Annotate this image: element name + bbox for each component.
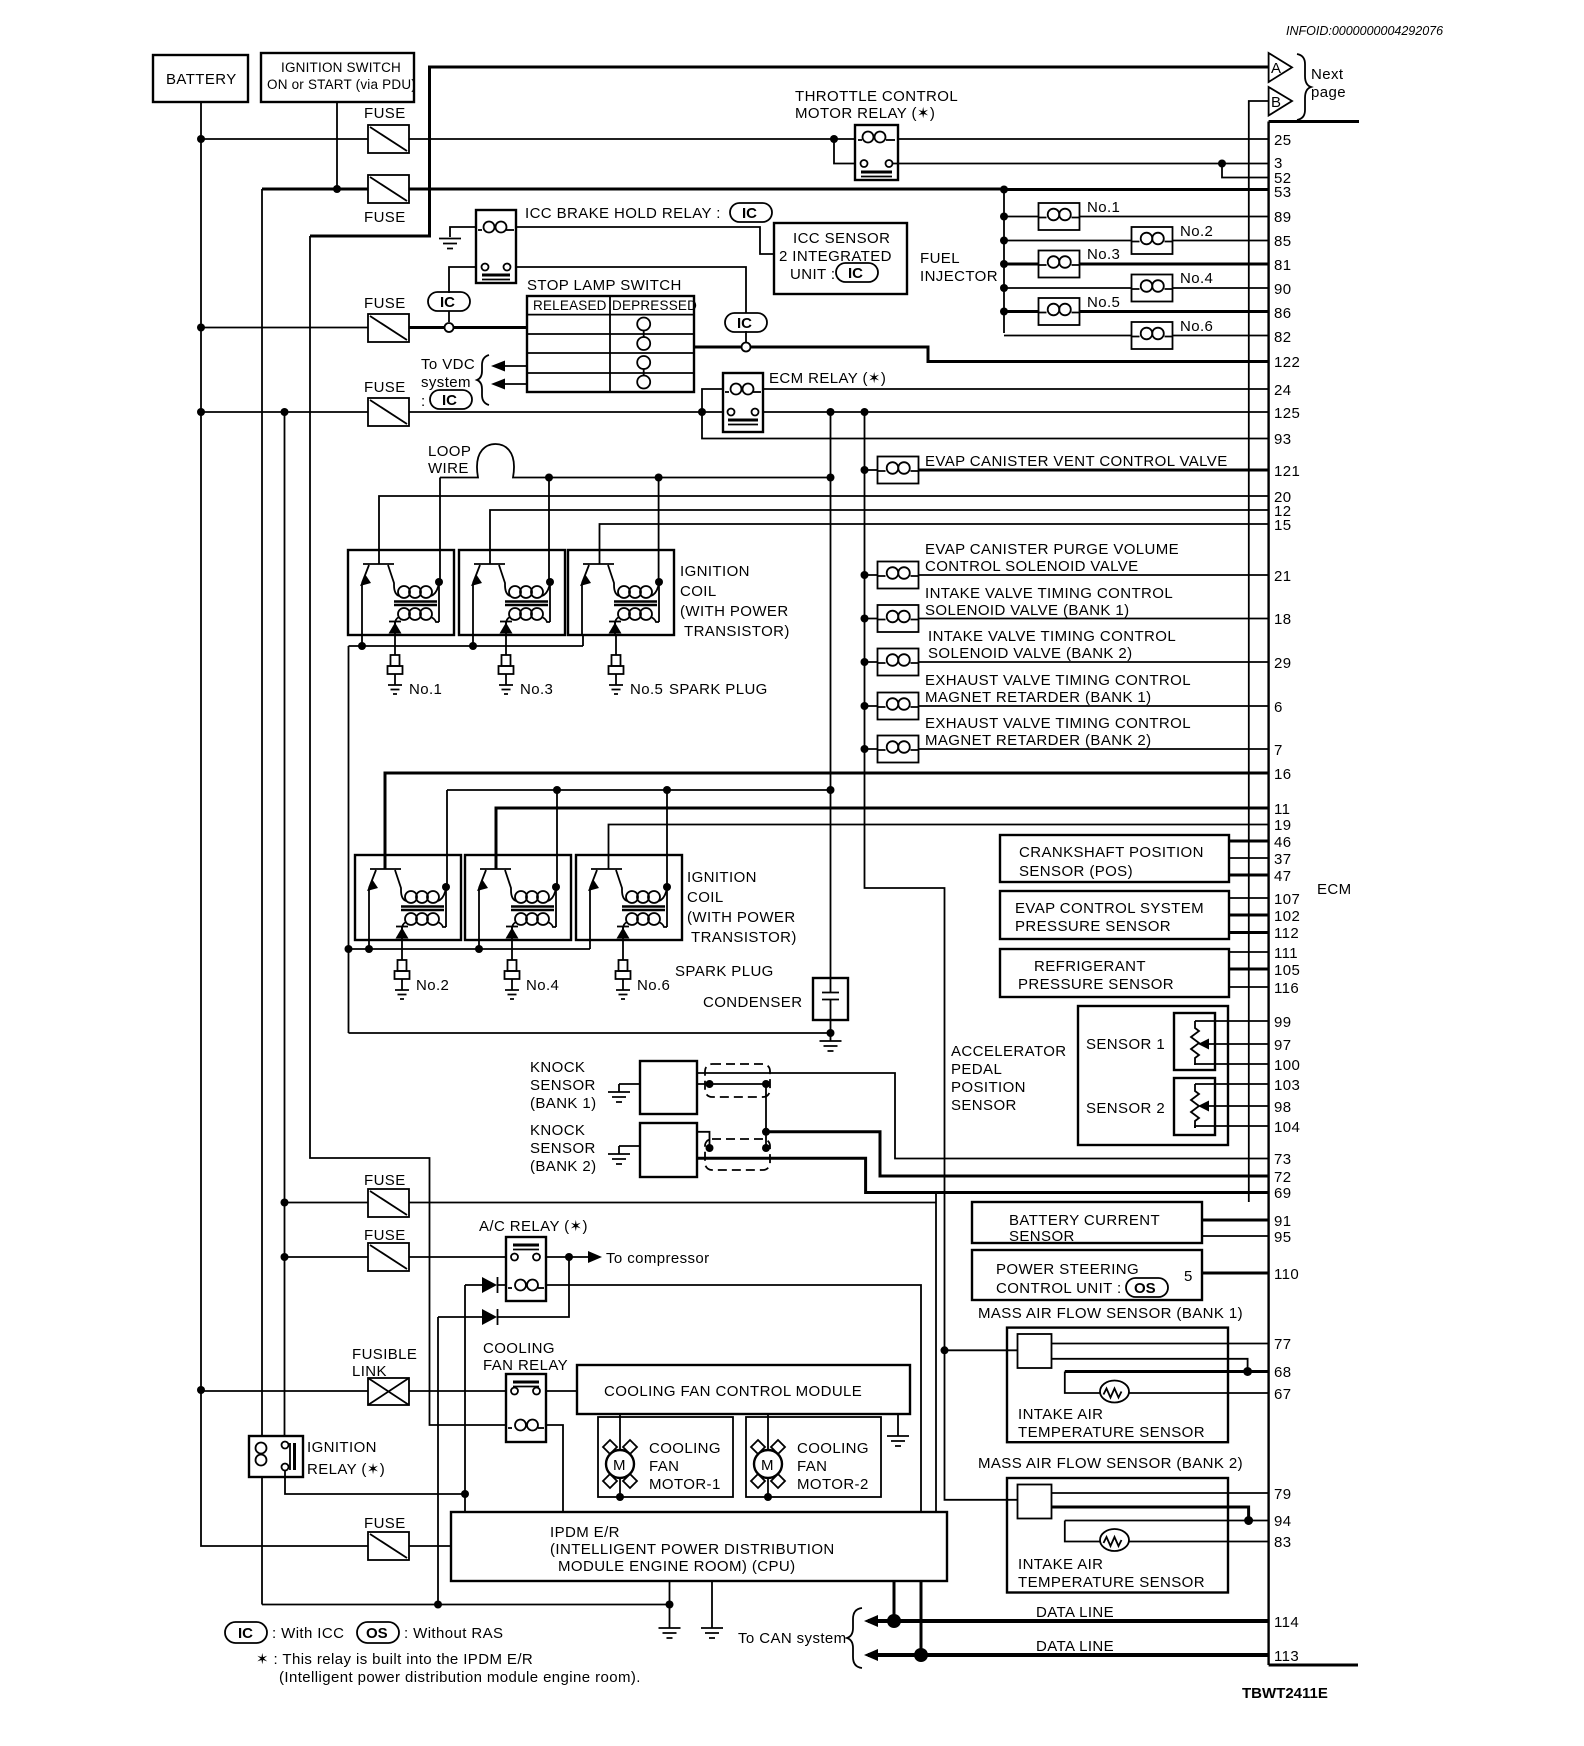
diode D2 bbox=[438, 1309, 498, 1325]
ignition coil No.5 (bank1) bbox=[568, 550, 674, 635]
svg-text:TBWT2411E: TBWT2411E bbox=[1242, 1685, 1328, 1702]
ignition coil No.2 (bank2) bbox=[355, 855, 461, 940]
svg-text:DATA LINE: DATA LINE bbox=[1036, 1604, 1114, 1621]
wire MAF2 ground link bbox=[1052, 1507, 1249, 1521]
svg-text:6: 6 bbox=[1274, 699, 1283, 716]
ground IPDM 1 bbox=[669, 1581, 671, 1620]
crankshaft position sensor bbox=[1000, 835, 1229, 882]
fuse F6 bbox=[364, 1227, 409, 1271]
svg-text:IC: IC bbox=[737, 315, 752, 332]
wire pin25 row from throttle relay coil bbox=[898, 138, 1268, 140]
svg-text:A/C RELAY (✶): A/C RELAY (✶) bbox=[479, 1218, 588, 1235]
svg-text:INTAKE AIR: INTAKE AIR bbox=[1018, 1556, 1103, 1573]
spark plug No.5 bbox=[609, 655, 624, 694]
APP sensor 2 bbox=[1086, 1078, 1215, 1135]
wire ICC relay coil right to ICC sensor unit bbox=[516, 227, 774, 254]
svg-text:FAN: FAN bbox=[649, 1458, 679, 1475]
svg-text:MOTOR RELAY (✶): MOTOR RELAY (✶) bbox=[795, 105, 935, 122]
svg-text:SOLENOID VALVE (BANK 1): SOLENOID VALVE (BANK 1) bbox=[925, 602, 1130, 619]
wire fuse2 row bbox=[262, 188, 1004, 191]
svg-text:SPARK PLUG: SPARK PLUG bbox=[675, 963, 774, 980]
wire pin 16 base line to coil2 bbox=[385, 773, 1268, 869]
ignition relay bbox=[249, 1436, 385, 1478]
svg-text:DEPRESSED: DEPRESSED bbox=[612, 298, 697, 313]
node battery-fusible-link junction bbox=[197, 1386, 205, 1394]
wire pin 15 base line to coil5 bbox=[600, 524, 1269, 564]
svg-text:No.6: No.6 bbox=[637, 977, 670, 994]
svg-text:83: 83 bbox=[1274, 1534, 1292, 1551]
wire solenoid feed bus 830 bbox=[830, 412, 832, 978]
wire fuse2 to pin53 bbox=[1004, 188, 1268, 191]
wire diode1 drop to IPDM bbox=[464, 1285, 466, 1512]
svg-text:UNIT :: UNIT : bbox=[790, 266, 835, 283]
ignition coil No.6 (bank2) bbox=[576, 855, 682, 940]
wire injector3 row to pin 81 bbox=[1004, 263, 1268, 266]
svg-text:COIL: COIL bbox=[680, 583, 717, 600]
svg-text:SENSOR 1: SENSOR 1 bbox=[1086, 1036, 1165, 1053]
svg-text:OS: OS bbox=[366, 1625, 388, 1642]
svg-text:IGNITION: IGNITION bbox=[680, 563, 750, 580]
wire power steering pin 110 bbox=[1202, 1272, 1268, 1275]
svg-text:: Without RAS: : Without RAS bbox=[404, 1625, 503, 1642]
wire ICC relay coil left to ground bbox=[450, 227, 476, 237]
svg-text:IC: IC bbox=[238, 1625, 253, 1642]
svg-text:COOLING: COOLING bbox=[483, 1340, 555, 1357]
svg-text:MAGNET RETARDER (BANK 2): MAGNET RETARDER (BANK 2) bbox=[925, 732, 1152, 749]
svg-text:ON or START (via PDU): ON or START (via PDU) bbox=[267, 77, 416, 92]
svg-text:73: 73 bbox=[1274, 1151, 1292, 1168]
wire spark plug leads bank1 bbox=[395, 635, 616, 655]
intake valve timing control solenoid valve bank2 bbox=[878, 628, 1177, 676]
wire VDC arrow row3 bbox=[497, 365, 527, 367]
svg-text:IGNITION: IGNITION bbox=[307, 1439, 377, 1456]
svg-text:No.1: No.1 bbox=[409, 681, 442, 698]
wire fuse7 row to IPDM bbox=[409, 1545, 451, 1547]
svg-text:INFOID:0000000004292076: INFOID:0000000004292076 bbox=[1286, 24, 1443, 38]
spark plug No.4 bbox=[505, 960, 520, 999]
wire A/C relay contact out to compressor bbox=[546, 1256, 596, 1258]
svg-text:37: 37 bbox=[1274, 851, 1292, 868]
node battery-fuse3 junction bbox=[197, 324, 205, 332]
svg-text:FUSE: FUSE bbox=[364, 1515, 406, 1532]
fusible link bbox=[352, 1346, 417, 1405]
cooling fan motor-2 bbox=[746, 1414, 881, 1501]
svg-text:No.5: No.5 bbox=[630, 681, 663, 698]
svg-text:LOOP: LOOP bbox=[428, 443, 471, 460]
wire solenoid feed bus 864 bbox=[865, 412, 1018, 1500]
svg-text:FUSE: FUSE bbox=[364, 295, 406, 312]
svg-text:CONTROL SOLENOID VALVE: CONTROL SOLENOID VALVE bbox=[925, 558, 1139, 575]
spark plug No.2 bbox=[395, 960, 410, 999]
svg-text:116: 116 bbox=[1274, 980, 1299, 997]
svg-text:: With ICC: : With ICC bbox=[272, 1625, 344, 1642]
svg-text:82: 82 bbox=[1274, 329, 1292, 346]
svg-text:EVAP CANISTER PURGE VOLUME: EVAP CANISTER PURGE VOLUME bbox=[925, 541, 1179, 558]
legend IC bbox=[225, 1622, 344, 1643]
svg-text:97: 97 bbox=[1274, 1037, 1292, 1054]
svg-text:125: 125 bbox=[1274, 405, 1300, 422]
ignition coil No.3 (bank1) bbox=[459, 550, 565, 635]
node bank2 feed taps bbox=[553, 786, 561, 794]
spark plug No.6 bbox=[616, 960, 631, 999]
svg-text:MODULE ENGINE ROOM) (CPU): MODULE ENGINE ROOM) (CPU) bbox=[558, 1558, 796, 1575]
wire pin 11 base line to coil4 bbox=[496, 808, 1268, 869]
svg-text:122: 122 bbox=[1274, 354, 1300, 371]
svg-text:SENSOR: SENSOR bbox=[530, 1140, 596, 1157]
wire data line to pin 113 bbox=[868, 1653, 1268, 1657]
wire shield to pin 72 bbox=[766, 1132, 1268, 1176]
spark plug No.1 bbox=[388, 655, 403, 694]
cooling fan motor-1 bbox=[598, 1414, 733, 1501]
ICC brake hold relay bbox=[476, 203, 772, 283]
svg-text:18: 18 bbox=[1274, 611, 1292, 628]
ground at ICC relay bbox=[439, 239, 461, 249]
wire VDC arrow row4 bbox=[497, 383, 527, 385]
cooling fan relay bbox=[483, 1340, 568, 1442]
node fuse4 to lower bus bbox=[281, 408, 289, 416]
exhaust valve timing control magnet retarder bank1 bbox=[878, 672, 1191, 720]
wire crank sensor pins 46/37/47 bbox=[1229, 841, 1268, 875]
svg-text:INJECTOR: INJECTOR bbox=[920, 268, 998, 285]
wire MAF1 pin 68 bbox=[1065, 1370, 1268, 1373]
wire left rail down to condenser line bbox=[348, 646, 350, 1033]
wire fuel injector feed bus bbox=[1003, 190, 1005, 334]
svg-text:B: B bbox=[1271, 94, 1281, 111]
wire bank2 emitter rail bbox=[349, 940, 591, 949]
svg-text:EVAP CANISTER VENT CONTROL VAL: EVAP CANISTER VENT CONTROL VALVE bbox=[925, 453, 1228, 470]
svg-text:77: 77 bbox=[1274, 1336, 1292, 1353]
svg-text:No.5: No.5 bbox=[1087, 294, 1120, 311]
wire ICC relay contact right branch down through IC bbox=[516, 267, 746, 342]
svg-text:KNOCK: KNOCK bbox=[530, 1122, 585, 1139]
wire APP2 pin 104 bbox=[1195, 1126, 1268, 1128]
svg-text:19: 19 bbox=[1274, 817, 1292, 834]
wire relay ground line bbox=[262, 1604, 670, 1606]
svg-text:IC: IC bbox=[742, 205, 757, 222]
svg-text:Next: Next bbox=[1311, 66, 1344, 83]
svg-text:M: M bbox=[761, 1457, 774, 1474]
wire IAT2 pin 83 bbox=[1129, 1541, 1268, 1543]
mass air flow sensor bank1 bbox=[978, 1305, 1243, 1442]
fuel injector No.5 bbox=[1039, 294, 1121, 325]
intake air temperature sensor bank2 bbox=[1065, 1521, 1100, 1542]
svg-text:5: 5 bbox=[1184, 1268, 1193, 1285]
ECM top bracket bbox=[1269, 120, 1359, 123]
wire diode2 drop to ground line bbox=[437, 1317, 439, 1605]
svg-text:STOP LAMP SWITCH: STOP LAMP SWITCH bbox=[527, 277, 682, 294]
ground at knock sensor 2 bbox=[619, 1145, 640, 1147]
svg-text:102: 102 bbox=[1274, 908, 1300, 925]
node pin3 to pin52 branch bbox=[1218, 160, 1226, 168]
wire MAF1 ground link bbox=[1052, 1359, 1248, 1372]
wire injector5 row to pin 86 bbox=[1004, 310, 1268, 313]
ICC sensor integrated unit bbox=[774, 223, 907, 294]
svg-text:TRANSISTOR): TRANSISTOR) bbox=[691, 929, 797, 946]
svg-text:WIRE: WIRE bbox=[428, 460, 469, 477]
svg-text:No.3: No.3 bbox=[1087, 246, 1120, 263]
wire fuse3 row bbox=[201, 327, 368, 329]
svg-text:25: 25 bbox=[1274, 132, 1292, 149]
wire MAF1 feed bbox=[945, 1349, 1018, 1351]
wire injector1 row to pin 89 bbox=[1004, 216, 1268, 218]
mass air flow sensor bank2 bbox=[978, 1455, 1243, 1593]
svg-text:85: 85 bbox=[1274, 233, 1292, 250]
EVAP control system pressure sensor bbox=[1000, 891, 1229, 939]
svg-text:IC: IC bbox=[848, 265, 863, 282]
exhaust valve timing control magnet retarder bank2 bbox=[878, 715, 1191, 763]
svg-text:COOLING FAN CONTROL MODULE: COOLING FAN CONTROL MODULE bbox=[604, 1383, 862, 1400]
svg-text:114: 114 bbox=[1274, 1614, 1299, 1631]
svg-text:103: 103 bbox=[1274, 1077, 1300, 1094]
svg-text:79: 79 bbox=[1274, 1486, 1292, 1503]
wire CAN drops from IPDM bbox=[894, 1581, 921, 1655]
svg-text:121: 121 bbox=[1274, 463, 1300, 480]
svg-text:EXHAUST VALVE TIMING CONTROL: EXHAUST VALVE TIMING CONTROL bbox=[925, 715, 1191, 732]
node battery-fuse4 junction bbox=[197, 408, 205, 416]
svg-text:91: 91 bbox=[1274, 1213, 1292, 1230]
svg-text:24: 24 bbox=[1274, 382, 1292, 399]
node ECM relay tap on 125 line bbox=[698, 408, 706, 416]
wire shield link bbox=[765, 1084, 767, 1148]
wire IVT1 row to pin 18 bbox=[865, 618, 1269, 620]
wire APP1 wiper pin 97 bbox=[1204, 1043, 1268, 1045]
fuel injector No.3 bbox=[1039, 246, 1121, 278]
wire bank1 emitter rail bbox=[349, 635, 584, 646]
svg-text:MASS AIR FLOW SENSOR (BANK 1): MASS AIR FLOW SENSOR (BANK 1) bbox=[978, 1305, 1243, 1322]
fuel injector No.2 bbox=[1132, 223, 1214, 254]
wire refrigerant sensor pins 111/105/116 bbox=[1229, 952, 1268, 987]
knock sensor bank2 bbox=[530, 1122, 697, 1177]
node bus830 tap on 125 line bbox=[827, 408, 835, 416]
connector circle on stop lamp output bbox=[742, 343, 751, 352]
refrigerant pressure sensor bbox=[1000, 949, 1229, 997]
svg-text:No.1: No.1 bbox=[1087, 199, 1120, 216]
node injector bus tap bbox=[1000, 186, 1008, 194]
svg-text:113: 113 bbox=[1274, 1648, 1299, 1665]
wire fuse5 drop to IPDM bbox=[935, 1193, 937, 1513]
svg-text:FUSIBLE: FUSIBLE bbox=[352, 1346, 417, 1363]
svg-text:FAN: FAN bbox=[797, 1458, 827, 1475]
wire fuse6 row to A/C relay bbox=[285, 1256, 507, 1258]
wire EVT2 row to pin 7 bbox=[865, 748, 1269, 750]
spark plug labels bank2 bbox=[416, 963, 774, 994]
svg-text:IC: IC bbox=[442, 392, 457, 409]
wire APP2 pin 103 bbox=[1195, 1083, 1268, 1085]
svg-text::: : bbox=[421, 393, 426, 410]
svg-text:95: 95 bbox=[1274, 1229, 1292, 1246]
next page brace and label bbox=[1297, 54, 1346, 120]
svg-text:ACCELERATOR: ACCELERATOR bbox=[951, 1043, 1067, 1060]
svg-text:(WITH POWER: (WITH POWER bbox=[687, 909, 796, 926]
svg-text:BATTERY CURRENT: BATTERY CURRENT bbox=[1009, 1212, 1160, 1229]
svg-text:COOLING: COOLING bbox=[797, 1440, 869, 1457]
diode D1 bbox=[465, 1277, 506, 1293]
svg-text:TEMPERATURE SENSOR: TEMPERATURE SENSOR bbox=[1018, 1574, 1205, 1591]
ignition coil No.1 (bank1) bbox=[348, 550, 454, 635]
svg-text:system: system bbox=[421, 374, 471, 391]
svg-text:REFRIGERANT: REFRIGERANT bbox=[1034, 958, 1146, 975]
wire knock1 signal to pin 73 bbox=[697, 1073, 1268, 1159]
svg-text:(BANK 2): (BANK 2) bbox=[530, 1158, 597, 1175]
svg-text:MASS AIR FLOW SENSOR (BANK 2): MASS AIR FLOW SENSOR (BANK 2) bbox=[978, 1455, 1243, 1472]
wire injector6 row to pin 82 bbox=[1004, 335, 1268, 337]
legend OS bbox=[357, 1622, 503, 1643]
svg-text:FUSE: FUSE bbox=[364, 1172, 406, 1189]
accelerator pedal position sensor bbox=[951, 1006, 1228, 1145]
svg-text:68: 68 bbox=[1274, 1364, 1292, 1381]
wire injector2 row to pin 85 bbox=[1004, 240, 1268, 242]
svg-text:ECM RELAY (✶): ECM RELAY (✶) bbox=[769, 370, 886, 387]
svg-text:FUSE: FUSE bbox=[364, 1227, 406, 1244]
wire MAF2 pin 94 bbox=[1065, 1520, 1268, 1522]
node CAN-H junction bbox=[887, 1614, 901, 1628]
wire ignition switch drop bbox=[336, 102, 338, 189]
wire throttle relay contact to pins 3/52 bbox=[893, 163, 1268, 165]
svg-text:MAGNET RETARDER (BANK 1): MAGNET RETARDER (BANK 1) bbox=[925, 689, 1152, 706]
svg-text:No.2: No.2 bbox=[1180, 223, 1213, 240]
wire pin 19 base line to coil6 bbox=[609, 825, 1269, 870]
wire ignition coil bank1 feed line with loop bbox=[440, 444, 831, 478]
svg-text:M: M bbox=[613, 1457, 626, 1474]
svg-text:86: 86 bbox=[1274, 305, 1292, 322]
svg-text:94: 94 bbox=[1274, 1513, 1292, 1530]
svg-text:2 INTEGRATED: 2 INTEGRATED bbox=[779, 248, 892, 265]
svg-text:No.4: No.4 bbox=[526, 977, 559, 994]
svg-text:107: 107 bbox=[1274, 891, 1300, 908]
wire data line to pin 114 bbox=[868, 1619, 1268, 1623]
svg-text:COIL: COIL bbox=[687, 889, 724, 906]
svg-text:No.2: No.2 bbox=[416, 977, 449, 994]
wire A-line to next page bbox=[310, 67, 1268, 236]
node shield to pin72 bbox=[762, 1128, 770, 1136]
condenser bbox=[703, 978, 848, 1020]
connector circle on fuse3 line bbox=[445, 323, 454, 332]
svg-text:90: 90 bbox=[1274, 281, 1292, 298]
svg-text:SPARK PLUG: SPARK PLUG bbox=[669, 681, 768, 698]
svg-text:53: 53 bbox=[1274, 184, 1292, 201]
wire evap pressure sensor pins 107/102/112 bbox=[1229, 897, 1268, 899]
wire MAF1 pin 77 bbox=[1052, 1343, 1269, 1345]
svg-text:POWER STEERING: POWER STEERING bbox=[996, 1261, 1139, 1278]
wire fuse1 row bbox=[201, 138, 855, 140]
wire bank1 feed verticals bbox=[440, 478, 659, 583]
wire spark plug leads bank2 bbox=[402, 940, 623, 960]
svg-text:BATTERY: BATTERY bbox=[166, 71, 237, 88]
knock sensor bank1 bbox=[530, 1059, 697, 1114]
wire ECM relay coil left to pin 93 bbox=[702, 389, 1268, 439]
svg-text:No.4: No.4 bbox=[1180, 270, 1213, 287]
ground at cooling fan module bbox=[897, 1414, 899, 1428]
ignition coil bank1 label bbox=[680, 563, 790, 640]
wire battery vertical bus bbox=[201, 102, 368, 1546]
fuel injector No.6 bbox=[1132, 318, 1214, 349]
svg-text:page: page bbox=[1311, 84, 1346, 101]
wire stop lamp output to pin 122 bbox=[694, 347, 1268, 362]
fuse F5 bbox=[364, 1172, 409, 1217]
wire APP1 pin 99 bbox=[1195, 1020, 1268, 1022]
wire left bus from fuse2 down to ignition relay bbox=[261, 189, 263, 1436]
wire APP2 wiper pin 98 bbox=[1204, 1105, 1268, 1107]
svg-text:112: 112 bbox=[1274, 925, 1299, 942]
svg-text:15: 15 bbox=[1274, 517, 1292, 534]
wire lower feed bus to ignition relay contact bbox=[284, 412, 286, 1436]
IPDM E/R bbox=[451, 1512, 947, 1581]
svg-text:No.3: No.3 bbox=[520, 681, 553, 698]
svg-text:No.6: No.6 bbox=[1180, 318, 1213, 335]
wire B-line down to battery current sensor bbox=[1249, 101, 1269, 1202]
wire APP1 pin 100 bbox=[1195, 1064, 1268, 1065]
fuel injector No.4 bbox=[1132, 270, 1214, 302]
IC oval on fuse3 branch bbox=[428, 292, 470, 311]
ECM pin column line bbox=[1267, 122, 1269, 1666]
battery B+ bbox=[153, 55, 248, 102]
svg-text:EVAP CONTROL SYSTEM: EVAP CONTROL SYSTEM bbox=[1015, 900, 1204, 917]
svg-text:ECM: ECM bbox=[1317, 881, 1352, 898]
svg-text:SENSOR: SENSOR bbox=[951, 1097, 1017, 1114]
wire ICC relay contact left branch down through IC bbox=[449, 267, 476, 322]
svg-text:PRESSURE SENSOR: PRESSURE SENSOR bbox=[1015, 918, 1171, 935]
ground below condenser bbox=[820, 1033, 842, 1051]
svg-text:47: 47 bbox=[1274, 868, 1292, 885]
ignition switch bbox=[261, 53, 416, 102]
svg-text:INTAKE VALVE TIMING CONTROL: INTAKE VALVE TIMING CONTROL bbox=[925, 585, 1173, 602]
power steering control unit bbox=[972, 1250, 1202, 1300]
wire knock2 signal jog bbox=[697, 1132, 710, 1148]
svg-text:72: 72 bbox=[1274, 1169, 1292, 1186]
IC oval on stop lamp branch bbox=[725, 313, 767, 332]
ECM relay bbox=[723, 370, 886, 432]
svg-text:7: 7 bbox=[1274, 742, 1283, 759]
wire fuse4 row / pin 125 line bbox=[201, 411, 1268, 413]
wire fusible link row bbox=[201, 1390, 506, 1392]
node fuse1-throttle-relay junction bbox=[830, 135, 838, 143]
wire vent valve row to pin 121 bbox=[865, 469, 878, 471]
node bus864 tap on 125 line bbox=[861, 408, 869, 416]
svg-text:CONTROL UNIT :: CONTROL UNIT : bbox=[996, 1280, 1122, 1297]
svg-text:INTAKE AIR: INTAKE AIR bbox=[1018, 1406, 1103, 1423]
fuse F3 bbox=[364, 295, 409, 342]
wire condenser line bbox=[349, 1020, 831, 1033]
next page arrow B bbox=[1269, 87, 1292, 116]
svg-text:ICC BRAKE HOLD RELAY :: ICC BRAKE HOLD RELAY : bbox=[525, 205, 721, 222]
A/C relay bbox=[479, 1218, 588, 1301]
svg-text:16: 16 bbox=[1274, 766, 1292, 783]
svg-text:69: 69 bbox=[1274, 1185, 1292, 1202]
wire EVT1 row to pin 6 bbox=[865, 705, 1269, 707]
svg-text:FUEL: FUEL bbox=[920, 250, 960, 267]
svg-text:OS: OS bbox=[1134, 1280, 1156, 1297]
svg-text:89: 89 bbox=[1274, 209, 1292, 226]
node bank1 feed taps bbox=[545, 474, 553, 482]
svg-text:To CAN system: To CAN system bbox=[738, 1630, 847, 1647]
svg-text:46: 46 bbox=[1274, 834, 1292, 851]
spark plug No.3 bbox=[499, 655, 514, 694]
fuse F4 bbox=[364, 379, 409, 426]
wire battery current sensor pin 95 bbox=[1202, 1235, 1268, 1237]
wire IVT2 row to pin 29 bbox=[865, 661, 1269, 663]
svg-text:111: 111 bbox=[1274, 945, 1298, 962]
svg-text:29: 29 bbox=[1274, 655, 1292, 672]
wire pin 20 base line to coil1 bbox=[379, 496, 1268, 564]
wire knock1 return bbox=[697, 1083, 766, 1085]
EVAP canister purge volume control solenoid valve bbox=[878, 541, 1180, 589]
ignition coil bank2 label bbox=[687, 869, 797, 946]
svg-text:(Intelligent power distributio: (Intelligent power distribution module e… bbox=[279, 1669, 641, 1686]
svg-text:FAN RELAY: FAN RELAY bbox=[483, 1357, 568, 1374]
wire cooling fan relay coil to IPDM bbox=[546, 1425, 563, 1512]
svg-text:✶ : This relay is built into t: ✶ : This relay is built into the IPDM E/… bbox=[256, 1651, 533, 1668]
node ignition-switch fuse2 junction bbox=[333, 185, 341, 193]
